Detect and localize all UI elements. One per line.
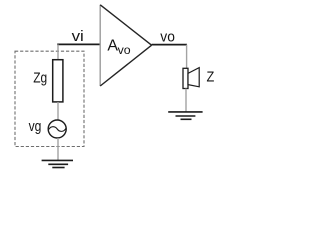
amplifier top edge [100,5,151,45]
wire Zg bottom to vg source top [57,102,59,120]
ground (left, under vg) [42,160,73,167]
svg-text:vo: vo [160,29,175,45]
svg-text:Zg: Zg [33,70,47,86]
speaker Z (horn) [188,68,199,87]
wire vi horizontal (junction to amplifier input) [57,43,100,45]
amplifier bottom edge [100,45,151,86]
svg-text:Z: Z [207,69,215,86]
ground (right, under speaker Z) [168,112,202,119]
wire corner down to speaker top [186,45,188,69]
sine symbol inside vg [48,127,66,132]
speaker Z (driver rectangle) [183,68,188,88]
wire vo horizontal (amplifier output to corner) [152,44,187,46]
op-amp Avo (amplifier triangle) [100,5,151,86]
source box (dashed Thevenin enclosure) [15,51,84,146]
impedance Zg (rectangle) [53,60,63,102]
wire vg bottom to ground [57,138,59,160]
wire speaker bottom to ground [185,89,187,112]
source vg (AC source circle) [48,120,66,138]
svg-text:vo: vo [118,43,131,57]
svg-text:vi: vi [72,29,84,45]
wire vertical stub junction to Zg top [57,44,59,60]
svg-text:vg: vg [29,119,42,135]
amplifier input edge (vertical) [99,5,101,86]
